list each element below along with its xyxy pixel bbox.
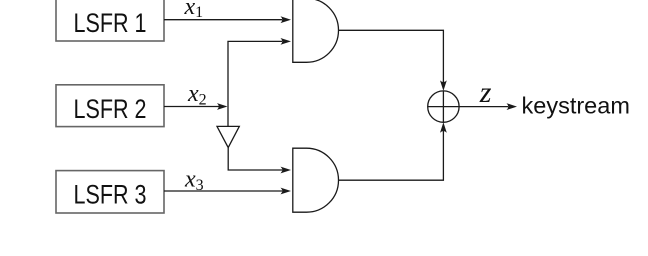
svg-text:LSFR 3: LSFR 3	[74, 179, 147, 209]
register LSFR 1	[56, 0, 164, 41]
svg-text:LSFR 2: LSFR 2	[74, 94, 147, 124]
wire: AND2 output right then up to XOR bottom input	[339, 122, 447, 180]
wire: XOR output to keystream	[459, 103, 517, 110]
XOR gate U4 (circle with plus)	[428, 91, 459, 122]
register LSFR 3	[56, 171, 164, 213]
svg-text:x1: x1	[184, 0, 204, 21]
wire: node N1 up and right to AND1 input B	[228, 38, 291, 126]
wire x2: LSFR2 output to node N1	[164, 103, 228, 110]
wire x3: LSFR3 output to AND2 input B	[164, 188, 291, 195]
wire: inverter output down and right to AND2 input A	[228, 148, 291, 174]
AND gate U2 (bottom)	[293, 148, 339, 212]
svg-text:z: z	[479, 76, 492, 109]
register LSFR 2	[56, 85, 164, 127]
svg-text:keystream: keystream	[522, 92, 630, 118]
svg-text:LSFR 1: LSFR 1	[74, 8, 147, 38]
wire: AND1 output right then down to XOR top input	[339, 30, 447, 91]
svg-text:x2: x2	[187, 81, 207, 108]
inverter U3 (triangle)	[217, 126, 239, 147]
svg-text:x3: x3	[184, 167, 204, 194]
AND gate U1 (top)	[293, 0, 339, 62]
wire x1: LSFR1 output to AND1 input A	[164, 16, 291, 23]
